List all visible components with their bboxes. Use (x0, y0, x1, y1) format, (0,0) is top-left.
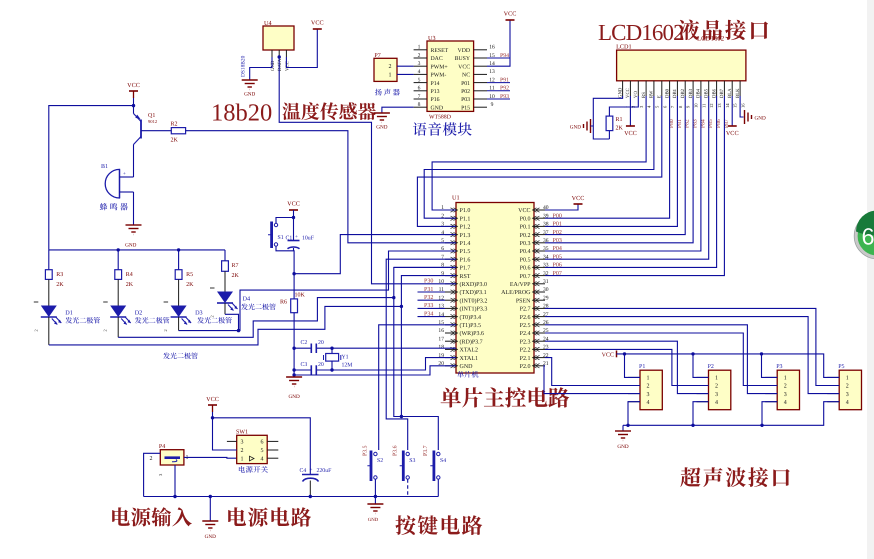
LED D2 (117, 279, 119, 305)
svg-text:P1.6: P1.6 (460, 257, 471, 263)
resistor R4 2K (117, 250, 119, 270)
svg-text:P7: P7 (374, 53, 380, 59)
svg-text:RESET: RESET (431, 48, 449, 54)
svg-text:2: 2 (33, 329, 38, 331)
svg-text:1: 1 (389, 72, 392, 78)
wire VCC to SW1 pin2 (213, 412, 237, 450)
svg-text:R2: R2 (171, 122, 178, 128)
svg-text:P16: P16 (431, 97, 440, 103)
svg-text:(WR)P3.6: (WR)P3.6 (460, 330, 485, 337)
svg-text:C1: C1 (286, 236, 293, 242)
svg-text:R7: R7 (232, 263, 239, 269)
svg-text:EA/VPP: EA/VPP (510, 282, 531, 288)
wire Q1 base to R2 (141, 130, 171, 132)
svg-text:1: 1 (784, 376, 787, 382)
wire P4 pin1 to SW1 pin1 (184, 456, 237, 459)
svg-text:2: 2 (150, 456, 153, 462)
connector P1 ultrasonic (628, 364, 662, 410)
svg-text:P1: P1 (639, 364, 645, 370)
svg-text:S3: S3 (409, 458, 415, 464)
svg-text:GND: GND (244, 92, 255, 98)
connector P3 ultrasonic (765, 364, 799, 410)
svg-text:(RD)P3.7: (RD)P3.7 (460, 338, 483, 345)
svg-text:S2: S2 (377, 458, 383, 464)
svg-text:29: 29 (543, 295, 549, 301)
svg-text:ALE/PROG: ALE/PROG (501, 290, 531, 296)
wire U3 pin8 GND to ground (382, 107, 414, 113)
svg-text:GND: GND (125, 243, 136, 249)
svg-text:U1: U1 (452, 195, 460, 202)
svg-text:P1.0: P1.0 (460, 208, 471, 214)
svg-text:VCC: VCC (206, 396, 219, 403)
svg-text:18: 18 (438, 345, 444, 351)
svg-text:16: 16 (438, 328, 444, 334)
svg-text:VCC: VCC (572, 195, 585, 202)
svg-text:VCC: VCC (504, 11, 517, 18)
svg-text:LCD1602: LCD1602 (598, 20, 684, 45)
svg-text:GND: GND (376, 125, 387, 131)
svg-text:VCC: VCC (127, 82, 140, 89)
wire bus b3 D1 to U1 pin9 (49, 306, 402, 345)
resistor R2 2K (171, 128, 185, 134)
svg-text:9012: 9012 (148, 119, 158, 124)
svg-text:18b20: 18b20 (211, 100, 272, 127)
resistor R5 2K (178, 250, 180, 270)
svg-text:VCC: VCC (287, 201, 300, 208)
svg-text:4: 4 (647, 400, 650, 406)
svg-text:PSEN: PSEN (516, 298, 531, 304)
svg-text:VCC: VCC (726, 130, 739, 137)
wire P4 pin2 to ground bus (144, 453, 161, 496)
wire U3 pin14 to VCC (487, 20, 510, 66)
svg-text:C4: C4 (300, 468, 307, 474)
LED top bus (49, 249, 225, 251)
connector P4 power input (160, 450, 184, 465)
pushbutton S3 (400, 451, 416, 482)
wire left rail to LED bus (49, 106, 134, 250)
pushbutton S1 (268, 222, 284, 249)
svg-text:GND: GND (270, 60, 276, 71)
svg-text:GND: GND (288, 394, 299, 400)
svg-text:P1.5: P1.5 (460, 249, 471, 255)
svg-text:1: 1 (846, 376, 849, 382)
svg-text:P0.7: P0.7 (520, 274, 531, 280)
svg-text:U3: U3 (428, 35, 436, 42)
GND bus ultrasonic (623, 402, 839, 426)
svg-text:R1: R1 (616, 117, 623, 123)
svg-text:2: 2 (647, 384, 650, 390)
svg-text:XTAL1: XTAL1 (460, 356, 479, 362)
wire U1 pin9 stub down (400, 306, 402, 416)
svg-text:1: 1 (647, 376, 650, 382)
svg-text:S4: S4 (440, 458, 446, 464)
svg-text:R3: R3 (56, 272, 63, 278)
svg-text:P2.6: P2.6 (520, 315, 531, 321)
svg-text:R5: R5 (186, 272, 193, 278)
svg-text:P3: P3 (776, 364, 782, 370)
svg-text:P0.0: P0.0 (520, 216, 531, 222)
svg-text:S1: S1 (278, 235, 284, 241)
wire U4 DATA down-right to U1 pin10 (278, 55, 281, 58)
svg-text:16: 16 (489, 45, 495, 51)
wire VCC branch to S1 (276, 218, 294, 224)
connector P5 ultrasonic (827, 364, 861, 410)
ground symbol ultrasonic (622, 425, 624, 431)
svg-text:1: 1 (715, 376, 718, 382)
svg-text:R4: R4 (126, 272, 133, 278)
capacitor C4 220uF (302, 474, 319, 476)
svg-text:P2.1: P2.1 (520, 356, 531, 362)
svg-text:(INT1)P3.3: (INT1)P3.3 (460, 306, 488, 313)
capacitor C3 20 (310, 365, 312, 375)
svg-text:2: 2 (241, 448, 244, 454)
svg-text:B1: B1 (101, 164, 108, 170)
svg-text:P5: P5 (838, 364, 844, 370)
svg-text:10: 10 (694, 103, 699, 108)
svg-text:VDD: VDD (458, 48, 471, 54)
label DS18B20 rotated (0, 0, 1, 1)
svg-text:2K: 2K (126, 282, 134, 288)
svg-text:VCC: VCC (624, 130, 637, 137)
switch SW1 (237, 435, 268, 463)
svg-text:2K: 2K (56, 282, 64, 288)
svg-text:DS18B20: DS18B20 (241, 55, 247, 77)
svg-text:P0.2: P0.2 (520, 233, 531, 239)
MCU U1 AT89C51 (438, 195, 548, 374)
svg-text:(TXD)P3.1: (TXD)P3.1 (460, 289, 487, 296)
wire LCD pin3 VO to R1 (609, 96, 638, 116)
ground symbol power (209, 495, 212, 498)
svg-text:NC: NC (462, 73, 470, 79)
wire S1/C1 bottom node (276, 246, 294, 299)
connector P7 speaker (374, 58, 397, 81)
svg-text:7: 7 (418, 94, 421, 100)
VCC power (206, 396, 219, 405)
wire D4 to bus b1 (225, 314, 239, 330)
svg-text:P0.5: P0.5 (520, 257, 531, 263)
svg-text:C2: C2 (301, 340, 308, 346)
svg-text:P2: P2 (708, 364, 714, 370)
wire P7 to U3 pins 3,4 (397, 65, 414, 67)
svg-text:4: 4 (784, 400, 787, 406)
svg-text:U4: U4 (264, 20, 272, 27)
svg-text:12M: 12M (342, 363, 353, 369)
wire U1 pin8 to S4 (394, 266, 456, 268)
stub wires pins 11-14 (418, 291, 446, 293)
svg-text:+: + (295, 234, 298, 240)
svg-text:D3: D3 (195, 310, 203, 317)
svg-text:WT588D: WT588D (429, 115, 451, 121)
svg-text:P0.1: P0.1 (520, 225, 531, 231)
svg-text:(RXD)P3.0: (RXD)P3.0 (460, 281, 488, 288)
wire U1 pin20 GND to crystal ground (294, 366, 456, 375)
svg-text:VCC: VCC (311, 20, 324, 27)
svg-text:1: 1 (241, 456, 244, 462)
svg-text:P02: P02 (461, 89, 470, 95)
svg-text:BUSY: BUSY (455, 56, 471, 62)
title power input (112, 507, 192, 526)
wire crystal row C3 to U1 pin19 (294, 369, 311, 371)
svg-text:30: 30 (543, 287, 549, 293)
buzzer B1 (101, 164, 134, 198)
VCC at S1/C1 (287, 201, 300, 211)
svg-text:GND: GND (460, 364, 474, 370)
svg-text:GND: GND (368, 517, 379, 523)
svg-text:P13: P13 (431, 89, 440, 95)
wire LCD pin2 to VCC (629, 96, 631, 126)
svg-text:1: 1 (418, 45, 421, 51)
svg-text:2: 2 (784, 384, 787, 390)
wire U4 pin1 to GND (250, 57, 272, 80)
svg-text:11: 11 (701, 103, 706, 108)
svg-text:DATA: DATA (277, 58, 283, 71)
wire buzzer to ground (133, 192, 135, 225)
svg-text:2: 2 (846, 384, 849, 390)
resistor R1 2K (606, 116, 613, 131)
svg-text:14: 14 (725, 103, 730, 108)
svg-text:2: 2 (418, 53, 421, 59)
svg-text:XTAL2: XTAL2 (460, 348, 479, 354)
svg-text:D4: D4 (243, 296, 251, 303)
svg-text:GND: GND (205, 534, 216, 540)
wire P4 pin3 to ground bus (174, 465, 176, 497)
LED D1 (48, 279, 50, 305)
wire crystal row C2 to U1 pin18 (294, 347, 311, 349)
ground symbol U4 (242, 80, 258, 90)
wire VCC to Q1 emitter and left rail (133, 98, 135, 114)
svg-text:(T1)P3.5: (T1)P3.5 (460, 322, 482, 329)
svg-text:P1.1: P1.1 (460, 216, 471, 222)
svg-text:2K: 2K (186, 282, 194, 288)
svg-text:P15: P15 (461, 105, 470, 111)
svg-text:3: 3 (418, 61, 421, 67)
svg-text:PWM-: PWM- (431, 73, 447, 79)
capacitor C2 20 (310, 344, 312, 354)
svg-text:RST: RST (460, 274, 471, 280)
svg-text:8: 8 (418, 102, 421, 108)
scrollbar strip right edge (867, 0, 874, 559)
resistor R3 2K (48, 250, 50, 270)
svg-text:P2.7: P2.7 (520, 307, 531, 313)
LCD1602 connector LCD1 (617, 50, 746, 81)
svg-text:5: 5 (418, 77, 421, 83)
LED D3 (178, 279, 180, 305)
svg-text:P1.7: P1.7 (460, 266, 471, 272)
ground symbol buzzer (126, 225, 142, 235)
title key circuit (395, 515, 482, 535)
ground symbol LCD left (584, 119, 591, 133)
svg-text:2: 2 (715, 384, 718, 390)
svg-text:4: 4 (418, 69, 421, 75)
title MCU main control circuit (441, 387, 570, 407)
label speaker (375, 89, 400, 96)
svg-text:4: 4 (846, 400, 849, 406)
data wires LCD DB0-DB7 to U1 P0 (545, 96, 670, 218)
svg-text:3: 3 (647, 392, 650, 398)
svg-text:4: 4 (715, 400, 718, 406)
svg-text:(T0)P3.4: (T0)P3.4 (460, 314, 482, 321)
wire R6 to crystal ground rail (293, 313, 295, 377)
svg-text:10K: 10K (295, 293, 306, 299)
svg-text:DAC: DAC (431, 56, 443, 62)
ground bus bottom (144, 496, 439, 498)
svg-text:GND: GND (617, 444, 628, 450)
svg-text:P2.4: P2.4 (520, 331, 531, 337)
connector P2 ultrasonic (697, 364, 731, 410)
LED D4 (224, 271, 226, 291)
svg-text:9: 9 (491, 102, 494, 108)
wire Q1 collector to buzzer (133, 145, 135, 178)
svg-text:Y1: Y1 (342, 355, 349, 361)
svg-text:2K: 2K (232, 273, 240, 279)
VCC at U1 pin40 (545, 204, 578, 210)
label LEDs center (163, 352, 198, 359)
svg-text:P03: P03 (461, 97, 470, 103)
svg-text:PWM+: PWM+ (431, 64, 448, 70)
ground symbol crystal (286, 377, 302, 387)
svg-text:P1.3: P1.3 (460, 233, 471, 239)
svg-text:GND: GND (431, 105, 444, 111)
svg-text:GND: GND (570, 125, 581, 131)
wire VCC branch to C4 (213, 418, 311, 474)
voice module U3 WT588D (427, 41, 474, 111)
18B20 sensor U4 (263, 20, 294, 71)
svg-text:2K: 2K (616, 126, 624, 132)
svg-text:VCC: VCC (602, 353, 614, 359)
VCC symbol top (311, 20, 324, 30)
VCC bus ultrasonic (617, 354, 840, 378)
svg-text:VCC: VCC (284, 61, 290, 71)
svg-text:VCC: VCC (518, 208, 530, 214)
wire U4 VCC pin to VCC (286, 29, 317, 68)
svg-text:P3.7: P3.7 (423, 445, 429, 456)
svg-text:3: 3 (715, 392, 718, 398)
VCC at Q1 (127, 82, 140, 91)
svg-text:P14: P14 (431, 81, 440, 87)
svg-text:P01: P01 (461, 81, 470, 87)
svg-text:2: 2 (103, 329, 108, 331)
svg-text:P2.2: P2.2 (520, 348, 531, 354)
svg-text:P2.0: P2.0 (520, 364, 531, 370)
svg-text:LCD1: LCD1 (616, 44, 631, 51)
svg-text:P0.6: P0.6 (520, 266, 531, 272)
svg-text:20: 20 (318, 340, 324, 346)
resistor R7 2K (224, 250, 226, 261)
svg-text:(INT0)P3.2: (INT0)P3.2 (460, 297, 488, 304)
capacitor C1 10uF (288, 240, 300, 242)
svg-text:3: 3 (241, 440, 244, 446)
svg-text:R6: R6 (280, 300, 287, 306)
svg-text:12: 12 (709, 103, 714, 108)
wire C4 to ground bus (309, 481, 311, 497)
svg-text:2: 2 (163, 329, 168, 331)
svg-text:6: 6 (261, 440, 264, 446)
ground symbol voice (374, 113, 390, 123)
svg-text:P0.4: P0.4 (520, 249, 531, 255)
svg-text:P2.3: P2.3 (520, 339, 531, 345)
svg-text:P2.5: P2.5 (520, 323, 531, 329)
svg-text:C3: C3 (301, 362, 308, 368)
wire LCD pin15 to VCC (731, 96, 733, 126)
wire pin4 to RC node (294, 235, 456, 274)
wire U1 pin15 to S2 (379, 325, 456, 450)
svg-text:+: + (310, 467, 313, 473)
wire U1 pin7 to S3 (386, 259, 456, 450)
svg-text:2: 2 (389, 64, 392, 70)
svg-text:VCC: VCC (458, 64, 470, 70)
svg-text:17: 17 (438, 336, 444, 342)
ground symbol buttons (374, 495, 377, 498)
svg-text:15: 15 (733, 103, 738, 108)
svg-text:P1.4: P1.4 (460, 241, 471, 247)
title power circuit (228, 507, 311, 526)
wires U1 P2.x to ultrasonic pins (545, 308, 839, 385)
svg-text:SW1: SW1 (236, 430, 248, 436)
svg-text:P4: P4 (159, 444, 165, 450)
svg-text:D1: D1 (65, 310, 73, 317)
svg-text:2: 2 (210, 315, 215, 317)
svg-text:3: 3 (784, 392, 787, 398)
svg-text:4: 4 (261, 456, 264, 462)
control wires LCD RS RW E to U1 pins 1-3 (432, 96, 646, 210)
wire bus b1 D3/D4 to U1 pin6 (179, 251, 456, 331)
svg-text:31: 31 (543, 279, 549, 285)
wire LCD pin16 to ground right (740, 96, 743, 117)
svg-text:P3.6: P3.6 (393, 445, 399, 456)
svg-text:GND: GND (755, 116, 766, 122)
pushbutton S4 (430, 451, 446, 482)
wire bus b2 D2 to U1 pin8 (118, 298, 394, 338)
svg-text:13: 13 (489, 69, 495, 75)
svg-text:13: 13 (717, 103, 722, 108)
svg-text:220uF: 220uF (317, 468, 333, 474)
svg-text:D2: D2 (135, 310, 143, 317)
svg-text:P3.5: P3.5 (363, 445, 369, 456)
resistor R6 10K (291, 299, 298, 313)
svg-text:P0.3: P0.3 (520, 241, 531, 247)
svg-text:+: + (123, 172, 126, 177)
title ultrasonic interface (680, 467, 789, 487)
svg-text:5: 5 (261, 448, 264, 454)
label danpianji under U1 (457, 371, 478, 378)
wire R2 to U1 pin5 (186, 131, 456, 243)
green badge overlay (854, 211, 874, 259)
wire LCD pin1 GND path (593, 96, 622, 139)
svg-text:LCD1602: LCD1602 (697, 36, 725, 43)
svg-text:2K: 2K (171, 138, 179, 144)
svg-text:6: 6 (418, 86, 421, 92)
svg-text:3: 3 (846, 392, 849, 398)
svg-text:16: 16 (741, 103, 746, 108)
transistor Q1 9012 (134, 113, 158, 145)
pushbutton S2 (367, 451, 383, 482)
svg-text:P1.2: P1.2 (460, 225, 471, 231)
svg-text:20: 20 (318, 362, 324, 368)
svg-text:10uF: 10uF (302, 236, 315, 242)
crystal Y1 12M (330, 347, 333, 350)
